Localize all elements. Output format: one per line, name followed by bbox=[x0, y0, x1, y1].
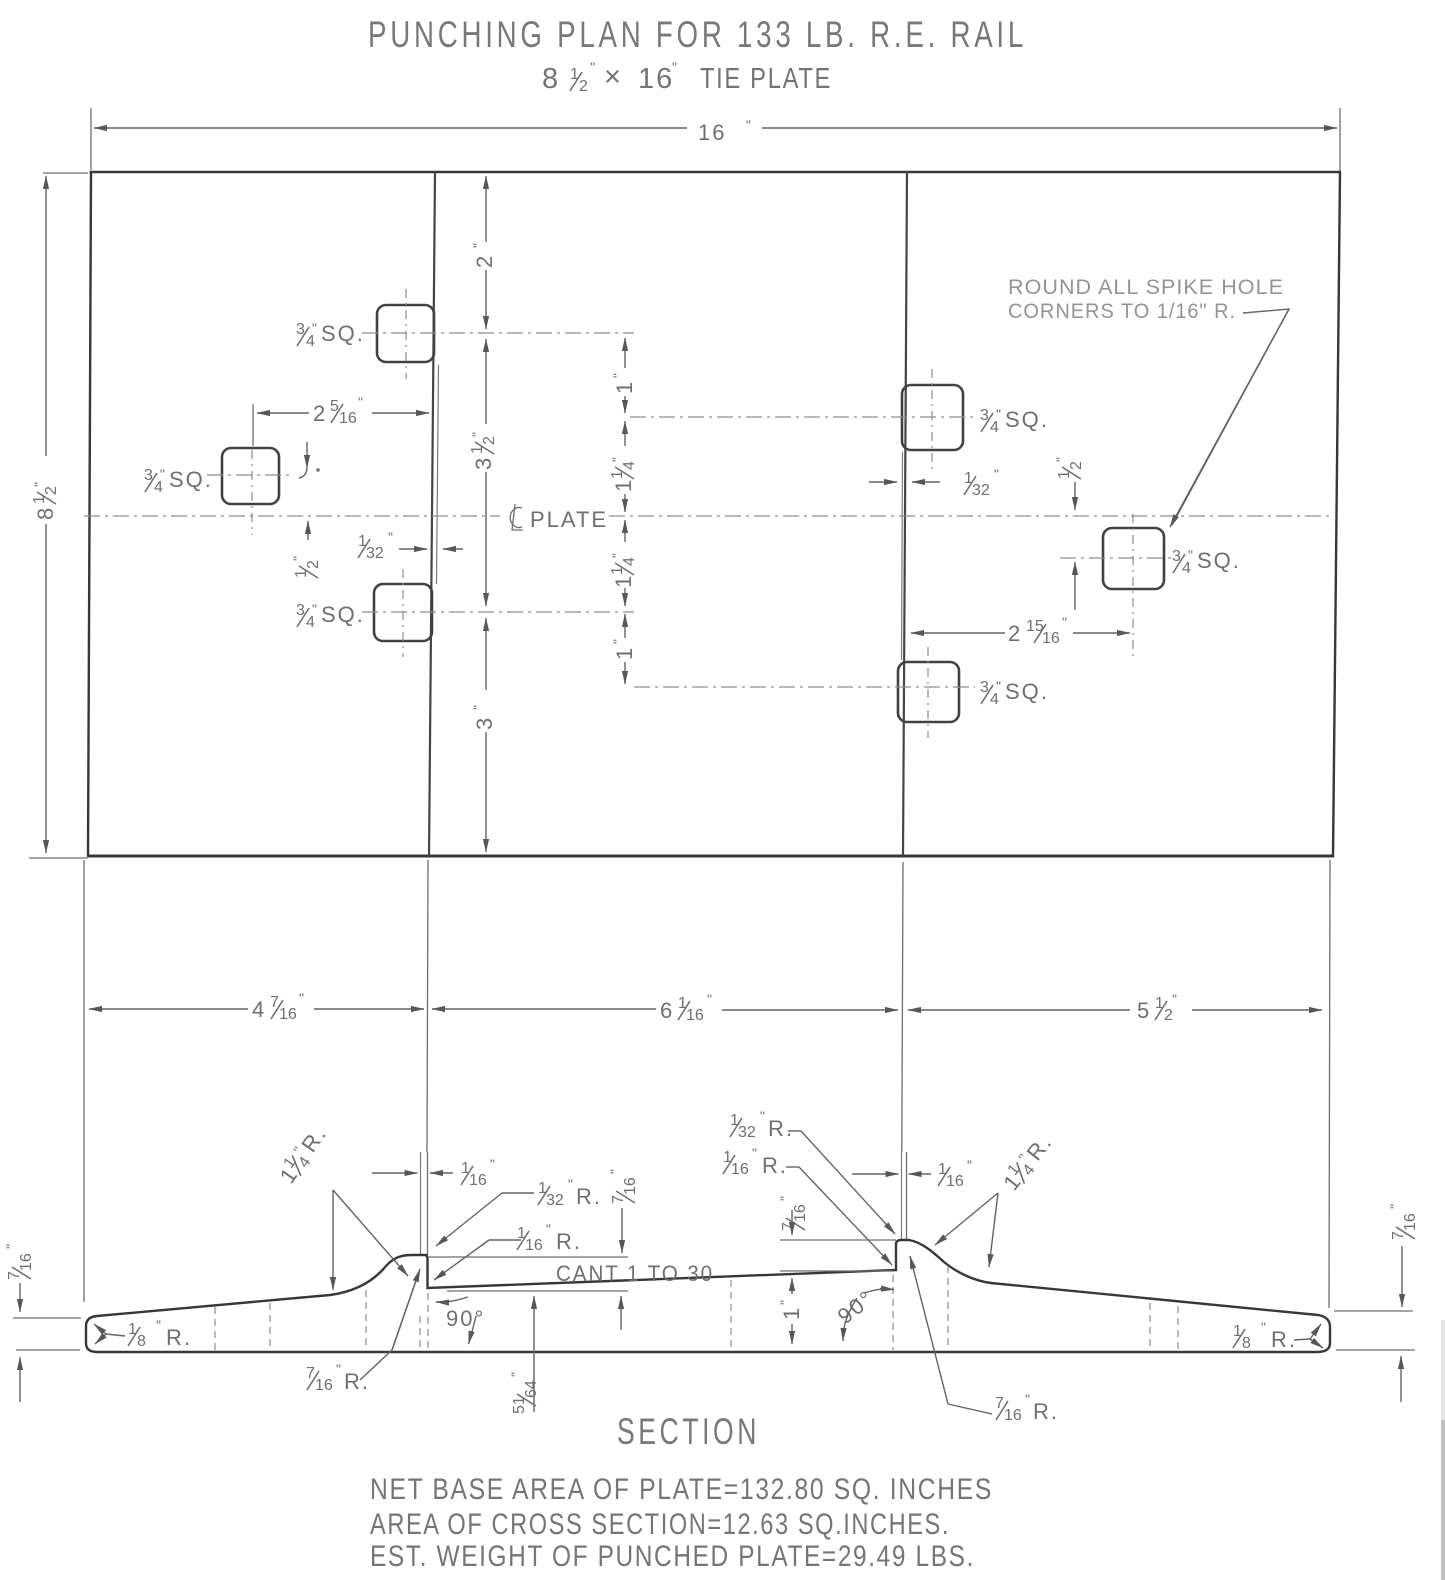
svg-text:4: 4 bbox=[252, 997, 266, 1022]
svg-text:SECTION: SECTION bbox=[617, 1411, 760, 1452]
svg-text:R.: R. bbox=[1271, 1327, 1297, 1352]
svg-text:": " bbox=[777, 1196, 793, 1201]
svg-text:": " bbox=[610, 639, 626, 644]
svg-text:PUNCHING PLAN FOR 133 LB. R.E.: PUNCHING PLAN FOR 133 LB. R.E. RAIL bbox=[368, 14, 1027, 55]
svg-text:R.: R. bbox=[166, 1325, 192, 1350]
svg-text:R.: R. bbox=[576, 1184, 602, 1209]
svg-text:EST. WEIGHT OF PUNCHED PLATE=2: EST. WEIGHT OF PUNCHED PLATE=29.49 LBS. bbox=[370, 1540, 975, 1573]
svg-text:3: 3 bbox=[472, 716, 497, 730]
svg-text:R.: R. bbox=[556, 1229, 582, 1254]
svg-text:2: 2 bbox=[1008, 621, 1022, 646]
svg-text:3: 3 bbox=[471, 456, 496, 470]
svg-text:": " bbox=[469, 432, 485, 437]
svg-text:": " bbox=[568, 1176, 573, 1192]
svg-text:": " bbox=[590, 59, 595, 75]
svg-text:": " bbox=[546, 1221, 551, 1237]
svg-text:PLATE: PLATE bbox=[530, 507, 608, 532]
svg-text:": " bbox=[777, 1300, 793, 1305]
svg-text:8: 8 bbox=[33, 506, 58, 520]
svg-text:": " bbox=[707, 991, 712, 1007]
svg-text:": " bbox=[610, 373, 626, 378]
svg-text:8: 8 bbox=[542, 63, 560, 95]
svg-text:": " bbox=[967, 1157, 972, 1173]
svg-text:": " bbox=[1172, 991, 1177, 1007]
svg-text:1: 1 bbox=[612, 380, 637, 394]
svg-text:1: 1 bbox=[779, 1306, 804, 1320]
svg-text:": " bbox=[1261, 1319, 1266, 1335]
svg-text:16: 16 bbox=[698, 120, 726, 145]
svg-text:": " bbox=[31, 482, 47, 487]
svg-text:": " bbox=[290, 556, 306, 561]
svg-text:R.: R. bbox=[762, 1153, 788, 1178]
svg-text:": " bbox=[994, 466, 999, 482]
svg-text:2: 2 bbox=[313, 401, 327, 426]
svg-text:": " bbox=[1387, 1204, 1403, 1209]
svg-text:2: 2 bbox=[472, 254, 497, 268]
svg-text:": " bbox=[609, 457, 625, 462]
svg-text:AREA OF CROSS SECTION=12.63 SQ: AREA OF CROSS SECTION=12.63 SQ.INCHES. bbox=[370, 1508, 950, 1541]
svg-text:R.: R. bbox=[1033, 1399, 1059, 1424]
svg-text:6: 6 bbox=[660, 998, 674, 1023]
svg-text:": " bbox=[156, 1317, 161, 1333]
svg-text:1: 1 bbox=[612, 646, 637, 660]
svg-text:": " bbox=[336, 1361, 341, 1377]
svg-text:16: 16 bbox=[638, 63, 674, 95]
svg-text:": " bbox=[607, 1169, 623, 1174]
svg-text:": " bbox=[609, 553, 625, 558]
svg-text:": " bbox=[490, 1156, 495, 1172]
svg-text:CANT 1 TO 30: CANT 1 TO 30 bbox=[556, 1261, 714, 1286]
svg-text:": " bbox=[752, 1145, 757, 1161]
svg-text:": " bbox=[388, 529, 393, 545]
svg-text:": " bbox=[1053, 457, 1069, 462]
svg-text:": " bbox=[1025, 1391, 1030, 1407]
svg-text:R.: R. bbox=[344, 1369, 370, 1394]
svg-text:ROUND ALL SPIKE HOLE: ROUND ALL SPIKE HOLE bbox=[1008, 276, 1284, 299]
svg-text:×: × bbox=[604, 61, 623, 93]
svg-text:CORNERS TO 1/16" R.: CORNERS TO 1/16" R. bbox=[1008, 300, 1236, 323]
svg-text:": " bbox=[299, 990, 304, 1006]
svg-text:5: 5 bbox=[1137, 998, 1151, 1023]
svg-text:R.: R. bbox=[768, 1116, 794, 1141]
svg-text:": " bbox=[470, 705, 486, 710]
svg-text:": " bbox=[672, 59, 677, 75]
svg-text:90°: 90° bbox=[446, 1306, 485, 1331]
svg-text:": " bbox=[760, 1108, 765, 1124]
svg-text:": " bbox=[746, 117, 751, 133]
svg-text:90°: 90° bbox=[833, 1285, 879, 1329]
svg-text:": " bbox=[358, 394, 363, 410]
svg-text:": " bbox=[470, 243, 486, 248]
svg-text:": " bbox=[3, 1244, 19, 1249]
svg-text:": " bbox=[508, 1372, 524, 1377]
svg-text:": " bbox=[1062, 614, 1067, 630]
svg-text:NET BASE AREA OF PLATE=132.80: NET BASE AREA OF PLATE=132.80 SQ. INCHES bbox=[370, 1473, 993, 1506]
svg-text:TIE PLATE: TIE PLATE bbox=[700, 63, 832, 95]
